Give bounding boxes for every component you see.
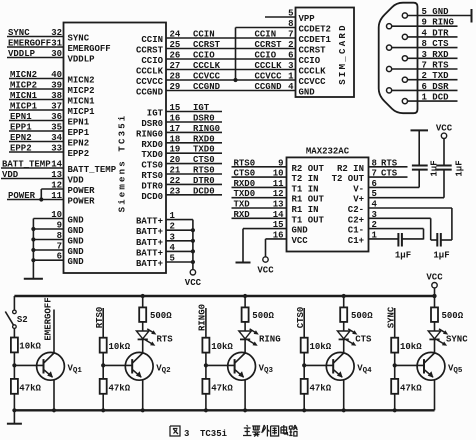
svg-text:2: 2 <box>170 222 175 232</box>
svg-text:18: 18 <box>170 134 181 144</box>
svg-text:500Ω: 500Ω <box>252 311 274 321</box>
ground symbol (U2 pin 15) <box>236 262 251 264</box>
svg-text:47kΩ: 47kΩ <box>310 384 332 394</box>
wire Q5 emitter <box>434 380 436 411</box>
U1 pin 40 MICN2 wire + net label <box>9 70 95 86</box>
resistor 500Ω (Q3 collector) <box>242 294 275 322</box>
U1 pin 35 EPP1 wire + net label <box>9 123 90 139</box>
svg-text:47kΩ: 47kΩ <box>211 384 233 394</box>
svg-text:17: 17 <box>170 124 181 134</box>
wire to ground rail (Q2 base) <box>101 394 105 413</box>
U1 pin 4 BATT+ wire <box>136 243 195 259</box>
J1 pin 7 CCDET1 <box>288 30 331 46</box>
svg-text:22: 22 <box>170 176 181 186</box>
J2 pin 1 DCD <box>402 93 457 104</box>
svg-text:8: 8 <box>372 158 377 168</box>
svg-text:MICN1: MICN1 <box>10 91 38 101</box>
svg-text:CTS0: CTS0 <box>296 307 306 329</box>
J2 pin 3 RXD <box>402 50 457 61</box>
svg-text:RXD0: RXD0 <box>141 140 163 150</box>
svg-text:CCRST: CCRST <box>193 40 221 50</box>
svg-text:8: 8 <box>57 231 62 241</box>
svg-text:29: 29 <box>170 82 181 92</box>
svg-text:500Ω: 500Ω <box>351 311 373 321</box>
svg-text:13: 13 <box>51 170 62 180</box>
svg-text:RXD: RXD <box>234 210 251 220</box>
svg-text:GND: GND <box>68 247 85 257</box>
J1 pin 3 CCCLK <box>288 61 326 77</box>
svg-text:1µF: 1µF <box>454 160 464 176</box>
resistor 500Ω (Q2 collector) <box>139 294 172 322</box>
IC U2 MAX232AC body <box>287 147 369 252</box>
U1 pin 17 RING0 wire + net label <box>136 124 222 140</box>
svg-text:CTS0: CTS0 <box>193 155 215 165</box>
U1 pin 31 EMERGOFF wire + net label <box>7 39 111 55</box>
svg-text:CCIN: CCIN <box>193 30 215 40</box>
U1 pin 3 BATT+ wire <box>136 232 195 248</box>
svg-text:36: 36 <box>51 112 62 122</box>
svg-text:1µF: 1µF <box>395 251 411 261</box>
svg-text:20: 20 <box>170 155 181 165</box>
U2 pin 7 T2 OUT wire + net CTS <box>332 169 408 185</box>
svg-text:3: 3 <box>184 429 189 439</box>
net EMERGOFF collector wire <box>43 297 54 353</box>
svg-text:MICP2: MICP2 <box>68 86 95 96</box>
U1 pin 1 BATT+ wire <box>136 211 193 227</box>
U1 pin 12 POWER wire (joins pin 11) <box>41 181 95 200</box>
U2 pin 5 V+ wire <box>353 189 444 205</box>
svg-text:30: 30 <box>51 49 62 59</box>
svg-text:24: 24 <box>170 30 181 40</box>
svg-text:6: 6 <box>372 179 377 189</box>
svg-text:VDD: VDD <box>68 176 85 186</box>
svg-text:VQ4: VQ4 <box>357 364 372 376</box>
svg-text:47kΩ: 47kΩ <box>400 384 422 394</box>
IC U1 Siemens TC35i body <box>64 23 167 274</box>
svg-text:CCDET1: CCDET1 <box>299 35 332 45</box>
svg-text:27: 27 <box>170 61 181 71</box>
svg-text:2: 2 <box>288 40 293 50</box>
net label RTS0 wire (Q2 base) <box>95 307 105 338</box>
U2 pin 12 R1 OUT wire + net TXD0 <box>232 189 325 205</box>
svg-text:7: 7 <box>57 242 62 252</box>
transistor Q5 (VQ5) <box>417 352 463 380</box>
svg-text:CCVCC: CCVCC <box>255 72 283 82</box>
svg-text:16: 16 <box>273 230 284 240</box>
svg-text:VQ2: VQ2 <box>156 364 171 376</box>
capacitor C1 1uF (V- charge pump) <box>411 130 440 187</box>
U2 pin 10 T2 IN wire + net CTS0 <box>232 169 319 185</box>
transistor Q4 (VQ4) <box>326 352 372 380</box>
svg-text:10: 10 <box>273 169 284 179</box>
svg-text:RTS0: RTS0 <box>193 166 215 176</box>
svg-text:VDDLP: VDDLP <box>68 55 96 65</box>
svg-text:39: 39 <box>51 81 62 91</box>
J1 pin 2 CCRST <box>288 40 326 56</box>
LED RING <box>239 322 281 353</box>
svg-text:28: 28 <box>170 72 181 82</box>
svg-text:15: 15 <box>273 220 284 230</box>
svg-text:2 TXD: 2 TXD <box>422 71 450 81</box>
svg-text:DSR0: DSR0 <box>141 119 163 129</box>
VCC top rail (indicator circuits) <box>14 296 434 310</box>
svg-text:19: 19 <box>170 145 181 155</box>
svg-text:RXD0: RXD0 <box>234 179 256 189</box>
svg-text:EPN1: EPN1 <box>68 118 90 128</box>
net label CTS0 wire (Q4 base) <box>296 307 306 338</box>
svg-text:25: 25 <box>170 40 181 50</box>
U1 pin 23 DCD0 wire + net label <box>141 186 222 202</box>
svg-text:4: 4 <box>288 82 294 92</box>
U2 pin 8 R2 IN wire + net RTS <box>337 158 408 174</box>
svg-text:IGT: IGT <box>193 103 210 113</box>
resistor 10kΩ (Q5 base) <box>391 338 422 353</box>
svg-text:BATT+: BATT+ <box>136 238 163 248</box>
svg-text:7: 7 <box>288 30 293 40</box>
svg-text:SIM_CARD: SIM_CARD <box>338 23 348 85</box>
svg-text:CCVCC: CCVCC <box>136 77 164 87</box>
U1 pin 36 EPN1 wire + net label <box>9 112 90 128</box>
svg-text:35: 35 <box>51 123 62 133</box>
svg-text:CCVCC: CCVCC <box>193 72 221 82</box>
svg-text:DSR0: DSR0 <box>193 114 215 124</box>
U1 pin 5 BATT+ wire <box>136 254 195 270</box>
svg-text:4 DTR: 4 DTR <box>422 28 450 38</box>
svg-text:RXD0: RXD0 <box>193 134 215 144</box>
svg-text:EMERGOFF: EMERGOFF <box>43 297 53 340</box>
svg-text:CCIO: CCIO <box>141 56 163 66</box>
svg-text:RING0: RING0 <box>193 124 220 134</box>
svg-text:500Ω: 500Ω <box>442 311 464 321</box>
svg-text:S2: S2 <box>17 315 28 325</box>
svg-text:BATT+: BATT+ <box>136 259 163 269</box>
svg-text:TXD0: TXD0 <box>234 189 256 199</box>
svg-text:RING0: RING0 <box>136 129 163 139</box>
svg-text:C2+: C2+ <box>348 215 364 225</box>
U1 pin 24 CCIN wire to SIM card <box>141 30 295 46</box>
svg-text:EMERGOFF: EMERGOFF <box>68 44 111 54</box>
ground symbol bottom left <box>7 408 22 424</box>
J1 pin 6 CCIO <box>288 51 321 67</box>
svg-text:T1 OUT: T1 OUT <box>292 215 325 225</box>
svg-text:CCGND: CCGND <box>193 82 221 92</box>
svg-text:23: 23 <box>170 186 181 196</box>
node wire (Q3 base) <box>204 353 208 379</box>
svg-text:CTS: CTS <box>355 335 372 345</box>
caption: 图 3 TC35i 主要外围电路 <box>170 425 297 439</box>
net label RING0 wire (Q3 base) <box>198 304 208 338</box>
ground symbol (U1 GND pins) <box>24 219 43 279</box>
resistor 10kΩ (Q4 base) <box>301 338 332 353</box>
svg-text:1: 1 <box>170 211 176 221</box>
svg-text:12: 12 <box>273 189 284 199</box>
capacitor C3 1uF (C1+/C1-) <box>395 233 424 261</box>
svg-text:SYNC: SYNC <box>446 335 468 345</box>
U1 pin 13 VDD wire + net label <box>1 170 84 186</box>
svg-text:11: 11 <box>273 179 284 189</box>
U2 pin 14 T1 OUT wire + net RXD <box>232 210 325 226</box>
svg-text:EPN1: EPN1 <box>10 112 32 122</box>
svg-text:CCIO: CCIO <box>193 51 215 61</box>
VCC terminal right <box>426 273 443 299</box>
svg-text:R1 IN: R1 IN <box>292 205 319 215</box>
svg-text:V-: V- <box>353 184 364 194</box>
svg-text:EPN2: EPN2 <box>68 139 90 149</box>
svg-text:GND: GND <box>299 88 316 98</box>
svg-text:CCRST: CCRST <box>299 46 327 56</box>
wire base Q3 <box>206 364 235 366</box>
GND bottom rail <box>14 409 434 411</box>
svg-text:C2-: C2- <box>348 205 364 215</box>
J2 pin 2 TXD <box>402 71 457 82</box>
svg-text:R1 OUT: R1 OUT <box>292 195 325 205</box>
wire Q1 emitter <box>52 380 56 413</box>
U1 pin 7 GND wire <box>31 242 84 258</box>
svg-text:RTS0: RTS0 <box>141 171 163 181</box>
svg-text:MICP2: MICP2 <box>10 81 37 91</box>
J2 pin 5 GND <box>402 7 471 23</box>
svg-text:CCCLK: CCCLK <box>299 67 327 77</box>
svg-text:CTS0: CTS0 <box>234 169 256 179</box>
resistor 47kΩ (Q5 base) <box>391 379 422 394</box>
transistor Q3 (VQ3) <box>228 352 274 380</box>
svg-text:VCC: VCC <box>257 266 274 276</box>
U1 pin 20 CTS0 wire + net label <box>141 155 222 171</box>
svg-text:CCCLK: CCCLK <box>193 61 221 71</box>
svg-text:14: 14 <box>51 160 62 170</box>
U1 pin 6 GND wire <box>31 252 84 268</box>
svg-text:R2 IN: R2 IN <box>337 164 364 174</box>
U1 pin 28 CCVCC wire to SIM card <box>136 72 296 88</box>
svg-text:GND: GND <box>68 216 85 226</box>
svg-text:EPP1: EPP1 <box>10 123 32 133</box>
LED RTS <box>136 322 173 353</box>
svg-text:SYNC: SYNC <box>68 34 90 44</box>
svg-text:R2 OUT: R2 OUT <box>292 164 325 174</box>
svg-text:CCCLK: CCCLK <box>255 61 283 71</box>
svg-text:12: 12 <box>51 181 62 191</box>
svg-text:CCIN: CCIN <box>255 30 277 40</box>
svg-text:RTS: RTS <box>381 158 398 168</box>
U1 pin 10 GND wire <box>33 210 84 226</box>
svg-text:3: 3 <box>170 232 175 242</box>
svg-text:MAX232AC: MAX232AC <box>306 147 350 157</box>
J1 pin 8 CCDET2 <box>288 19 331 35</box>
svg-text:37: 37 <box>51 102 62 112</box>
U1 pin 39 MICP2 wire + net label <box>9 81 95 97</box>
U1 pin 29 CCGND wire to SIM card <box>136 82 296 98</box>
node wire (Q2 base) <box>101 353 105 379</box>
U2 pin 13 R1 IN wire + net TXD <box>232 200 319 216</box>
svg-text:CCIN: CCIN <box>141 35 163 45</box>
svg-text:33: 33 <box>51 144 62 154</box>
svg-text:BATT+: BATT+ <box>136 217 163 227</box>
U1 pin 27 CCCLK wire to SIM card <box>136 61 296 77</box>
svg-text:500Ω: 500Ω <box>150 311 172 321</box>
svg-text:11: 11 <box>51 191 62 201</box>
resistor 10kΩ (Q2 base) <box>100 338 131 353</box>
svg-text:VCC: VCC <box>426 273 443 283</box>
svg-text:MICN2: MICN2 <box>10 70 37 80</box>
svg-text:POWER: POWER <box>68 186 96 196</box>
wire Q2 emitter <box>141 380 145 413</box>
node wire (Q4 base) <box>302 353 306 379</box>
svg-text:BATT+: BATT+ <box>136 227 163 237</box>
U1 pin 15 IGT wire + net label <box>147 103 222 119</box>
svg-text:RING: RING <box>259 335 281 345</box>
svg-text:V+: V+ <box>353 195 364 205</box>
node Q1 base wire <box>12 352 43 379</box>
svg-text:MICP1: MICP1 <box>10 102 38 112</box>
svg-text:C1-: C1- <box>348 226 364 236</box>
U2 pin 3 C2+ wire <box>348 210 431 240</box>
wire to ground rail (Q5 base) <box>393 394 397 413</box>
svg-text:6 DSR: 6 DSR <box>422 82 450 92</box>
U2 pin 9 R2 OUT wire + net RTS0 <box>232 158 325 174</box>
svg-text:1µF: 1µF <box>429 160 439 176</box>
U2 pin 6 V- wire <box>353 179 419 195</box>
VCC terminal (BATT+ rail) <box>185 220 202 288</box>
U1 pin 22 DTR0 wire + net label <box>141 176 222 192</box>
svg-text:7: 7 <box>372 169 377 179</box>
U2 pin 2 C1- wire <box>348 220 424 239</box>
U2 pin 15 GND wire <box>243 220 308 262</box>
wire VPP stub <box>265 16 296 18</box>
svg-text:MICP1: MICP1 <box>68 107 96 117</box>
svg-text:47kΩ: 47kΩ <box>19 384 41 394</box>
wire base Q2 <box>103 364 132 366</box>
U1 pin 33 EPP2 wire + net label <box>9 144 89 160</box>
svg-text:VQ1: VQ1 <box>68 364 83 376</box>
svg-text:VDD: VDD <box>2 170 19 180</box>
wire Q4 emitter <box>342 380 346 413</box>
svg-text:1 DCD: 1 DCD <box>422 93 450 103</box>
svg-text:26: 26 <box>170 51 181 61</box>
svg-text:VQ3: VQ3 <box>259 364 274 376</box>
svg-text:GND: GND <box>68 237 85 247</box>
svg-text:CCVCC: CCVCC <box>299 77 327 87</box>
svg-text:BATT_TEMP: BATT_TEMP <box>2 160 51 170</box>
svg-text:9: 9 <box>57 221 62 231</box>
U2 pin 4 C2- wire <box>348 200 452 241</box>
connector J2 DB9 serial port outline <box>379 3 418 114</box>
svg-text:RTS: RTS <box>157 335 174 345</box>
svg-text:38: 38 <box>51 91 62 101</box>
svg-text:5 GND: 5 GND <box>422 7 450 17</box>
svg-text:EPP2: EPP2 <box>10 144 32 154</box>
svg-text:5: 5 <box>372 189 377 199</box>
U1 pin 21 RTS0 wire + net label <box>141 166 222 182</box>
svg-text:10kΩ: 10kΩ <box>211 342 233 352</box>
svg-text:34: 34 <box>51 133 62 143</box>
svg-text:10kΩ: 10kΩ <box>400 342 422 352</box>
svg-text:VPP: VPP <box>299 14 316 24</box>
resistor 47kΩ (Q2 base) <box>100 379 131 394</box>
svg-text:T1 IN: T1 IN <box>292 184 319 194</box>
svg-text:3: 3 <box>288 61 293 71</box>
svg-text:6: 6 <box>288 51 293 61</box>
svg-text:CTS0: CTS0 <box>141 161 163 171</box>
resistor 47kΩ (Q1) <box>11 379 42 394</box>
svg-text:RING0: RING0 <box>198 304 208 331</box>
wire to ground rail (Q4 base) <box>302 394 306 413</box>
svg-text:15: 15 <box>170 103 181 113</box>
U1 pin 34 EPN2 wire + net label <box>9 133 89 149</box>
svg-text:CCIO: CCIO <box>255 51 277 61</box>
svg-text:32: 32 <box>51 28 62 38</box>
svg-text:47kΩ: 47kΩ <box>109 384 131 394</box>
svg-text:POWER: POWER <box>68 197 96 207</box>
U1 pin 30 VDDLP wire + net label <box>7 49 95 65</box>
J2 pin 4 DTR <box>402 28 457 39</box>
transistor Q2 (VQ2) <box>125 352 171 380</box>
svg-text:BATT_TEMP: BATT_TEMP <box>68 165 117 175</box>
wire base Q4 <box>304 364 333 366</box>
wire Q3 emitter <box>243 380 247 413</box>
svg-text:T2 OUT: T2 OUT <box>332 174 365 184</box>
svg-text:VCC: VCC <box>292 236 309 246</box>
U2 pin 16 VCC wire + VCC terminal <box>257 230 308 275</box>
net label SYNC wire (Q5 base) <box>386 306 396 338</box>
resistor 10kΩ (Q1 base) <box>11 338 42 353</box>
svg-text:VCC: VCC <box>185 278 202 288</box>
svg-text:GND: GND <box>292 226 309 236</box>
svg-text:EPP2: EPP2 <box>68 149 90 159</box>
svg-text:10kΩ: 10kΩ <box>310 342 332 352</box>
svg-text:EPN2: EPN2 <box>10 133 32 143</box>
J2 pin 6 DSR <box>387 82 458 93</box>
svg-text:RTS0: RTS0 <box>234 158 256 168</box>
svg-text:GND: GND <box>68 257 85 267</box>
wire CCDET2 to CCVCC link <box>233 28 295 83</box>
U1 pin 9 GND wire <box>31 221 84 237</box>
svg-text:MICN2: MICN2 <box>68 76 95 86</box>
node wire (Q5 base) <box>393 353 397 379</box>
svg-text:1µF: 1µF <box>433 251 449 261</box>
svg-text:5: 5 <box>170 254 175 264</box>
svg-text:CCRST: CCRST <box>136 46 164 56</box>
J1 pin 4 GND <box>288 82 315 98</box>
svg-text:3: 3 <box>372 210 377 220</box>
svg-text:13: 13 <box>273 200 284 210</box>
svg-text:RTS0: RTS0 <box>95 307 105 329</box>
U2 pin 11 T1 IN wire + net RXD0 <box>232 179 319 195</box>
resistor 47kΩ (Q4 base) <box>301 379 332 394</box>
svg-text:BATT+: BATT+ <box>136 248 163 258</box>
svg-text:14: 14 <box>273 210 284 220</box>
capacitor C4 1uF (C2+/C2-) <box>431 233 452 261</box>
svg-text:4: 4 <box>372 200 378 210</box>
svg-text:MICN1: MICN1 <box>68 97 96 107</box>
svg-text:CCIO: CCIO <box>299 56 321 66</box>
svg-text:SYNC: SYNC <box>386 306 396 328</box>
U1 pin 25 CCRST wire to SIM card <box>136 40 296 56</box>
svg-text:CCDET2: CCDET2 <box>299 25 331 35</box>
U1 pin 37 MICP1 wire + net label <box>9 102 95 118</box>
svg-text:CCGND: CCGND <box>136 88 164 98</box>
svg-text:2: 2 <box>372 220 377 230</box>
capacitor C2 1uF (VCC to V+) with VCC terminal <box>436 124 464 198</box>
svg-text:10: 10 <box>51 210 62 220</box>
svg-text:TXD0: TXD0 <box>193 145 215 155</box>
J1 pin 5 VPP <box>288 9 315 25</box>
svg-text:DCD0: DCD0 <box>193 186 215 196</box>
J2 pin 9 RING <box>387 18 458 29</box>
U1 pin 2 BATT+ wire <box>136 222 195 238</box>
svg-text:VQ5: VQ5 <box>448 364 463 376</box>
svg-text:4: 4 <box>170 243 176 253</box>
U1 pin 8 GND wire <box>31 231 84 247</box>
